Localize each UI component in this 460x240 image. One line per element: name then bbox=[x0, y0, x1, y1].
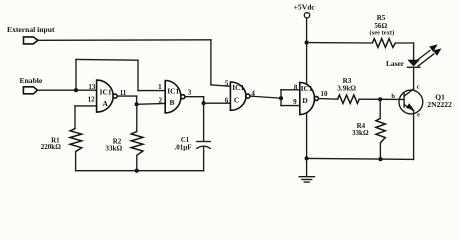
junction B-out/C-in6/C1 dot bbox=[202, 101, 206, 105]
nand gate IC1-B bbox=[165, 81, 185, 113]
svg-text:2N2222: 2N2222 bbox=[427, 100, 452, 109]
ground symbol bbox=[299, 158, 314, 182]
wire Enable branch vertical down to pin 1 bbox=[137, 60, 139, 90]
svg-text:1: 1 bbox=[158, 83, 162, 91]
svg-text:3.9kΩ: 3.9kΩ bbox=[337, 84, 356, 92]
wire +5V branch to R5 bbox=[307, 42, 373, 44]
svg-text:A: A bbox=[103, 99, 109, 108]
wire bottom right rail bbox=[307, 158, 414, 159]
svg-text:33kΩ: 33kΩ bbox=[105, 145, 122, 153]
power +5Vdc terminal circle bbox=[304, 13, 309, 18]
wire to pin 1 of IC1-B bbox=[138, 90, 165, 92]
wire node down to C1 bbox=[203, 103, 205, 141]
wire R3 to base node bbox=[359, 98, 404, 100]
junction base/R4 dot bbox=[378, 97, 382, 101]
laser emission arrow 1 shaft bbox=[414, 50, 430, 62]
capacitor C1 top plate bbox=[197, 141, 210, 143]
junction C-out node dot bbox=[279, 96, 283, 100]
svg-text:IC1: IC1 bbox=[167, 86, 179, 95]
svg-text:2: 2 bbox=[159, 97, 163, 105]
resistor R4 zigzag bbox=[376, 118, 385, 142]
wire D input tie vertical bbox=[280, 90, 282, 106]
nand gate IC1-C bbox=[230, 82, 250, 110]
wire R4 top stub bbox=[379, 99, 381, 118]
junction rail-R2 dot bbox=[135, 169, 139, 173]
svg-text:B: B bbox=[170, 98, 175, 107]
nand gate IC1-D bbox=[300, 82, 319, 114]
svg-text:.01µF: .01µF bbox=[174, 143, 191, 151]
junction R4/rail dot bbox=[378, 157, 382, 161]
svg-text:Laser: Laser bbox=[386, 59, 405, 68]
resistor R2 zigzag bbox=[131, 132, 143, 156]
svg-text:External input: External input bbox=[7, 25, 55, 34]
wire corner down to laser anode bbox=[413, 43, 415, 60]
resistor R1 zigzag bbox=[70, 128, 82, 151]
wire Enable to pin 13 of IC1-A bbox=[38, 89, 97, 91]
wire External input horizontal to gate C column bbox=[38, 39, 211, 42]
laser emission arrow 2 head bbox=[433, 48, 441, 56]
wire C1 bottom stub bbox=[203, 147, 205, 171]
wire +5V rail vertical bbox=[306, 18, 308, 158]
resistor R3 zigzag bbox=[338, 95, 360, 103]
laser emission arrow 1 head bbox=[429, 44, 437, 52]
wire to pin 9 of IC1-D bbox=[281, 105, 300, 107]
laser emission arrow 2 shaft bbox=[418, 54, 434, 66]
capacitor C1 curved plate bbox=[197, 146, 210, 148]
svg-text:D: D bbox=[302, 96, 307, 105]
wire R4 bottom stub bbox=[379, 143, 381, 160]
wire to pin 5 of IC1-C bbox=[211, 85, 231, 86]
wire pin 12 vertical down to R1 bbox=[74, 106, 76, 128]
svg-text:9: 9 bbox=[293, 98, 297, 106]
laser diode triangle bbox=[407, 60, 419, 67]
wire laser cathode to collector bbox=[413, 67, 415, 89]
wire Enable branch horizontal top bbox=[76, 58, 138, 61]
wire IC1-B output bbox=[185, 96, 204, 98]
wire IC1-C output to D inputs bbox=[250, 96, 281, 98]
wire R2 bottom stub bbox=[136, 155, 138, 170]
junction rail/ground dot bbox=[305, 156, 309, 160]
svg-text:3: 3 bbox=[188, 89, 192, 97]
svg-text:12: 12 bbox=[88, 96, 96, 104]
connector Enable tag bbox=[23, 87, 37, 94]
svg-text:10: 10 bbox=[321, 90, 329, 98]
svg-text:b: b bbox=[391, 93, 395, 100]
transistor Q1 circle bbox=[399, 90, 423, 114]
transistor Q1 emitter slant bbox=[404, 105, 414, 111]
svg-text:Enable: Enable bbox=[20, 76, 43, 85]
wire Enable branch vertical up bbox=[75, 59, 77, 90]
wire IC1-D output to R3 bbox=[318, 98, 337, 101]
wire output node vertical bbox=[136, 96, 138, 104]
svg-text:6: 6 bbox=[225, 96, 229, 104]
svg-text:33kΩ: 33kΩ bbox=[352, 129, 369, 137]
svg-text:8: 8 bbox=[294, 84, 298, 92]
wire to pin 6 of IC1-C bbox=[204, 102, 231, 104]
transistor Q1 emitter arrowhead bbox=[406, 103, 414, 110]
wire node down to R2 bbox=[136, 104, 138, 131]
wire pin 12 of IC1-A feedback horizontal bbox=[75, 105, 97, 107]
svg-text:e: e bbox=[417, 112, 420, 119]
wire IC1-A output to node bbox=[117, 95, 137, 97]
wire to pin 2 of IC1-B bbox=[137, 103, 166, 106]
laser diode cathode bar bbox=[407, 66, 419, 68]
resistor R5 zigzag bbox=[372, 39, 395, 48]
wire bottom left rail bbox=[76, 170, 204, 172]
svg-text:220kΩ: 220kΩ bbox=[41, 143, 61, 151]
svg-text:+5Vdc: +5Vdc bbox=[294, 3, 316, 12]
wire External input vertical down bbox=[210, 40, 212, 85]
svg-text:C: C bbox=[234, 95, 239, 104]
svg-text:5: 5 bbox=[225, 80, 229, 88]
junction Enable node dot bbox=[74, 88, 78, 92]
junction A-out/B-in2/R2 dot bbox=[135, 102, 139, 106]
svg-text:c: c bbox=[417, 84, 420, 91]
svg-text:IC1: IC1 bbox=[301, 84, 313, 93]
junction +5V/R5 dot bbox=[305, 41, 309, 45]
svg-text:IC1: IC1 bbox=[232, 83, 244, 92]
wire R1 bottom stub bbox=[75, 152, 77, 171]
wire emitter down to rail bbox=[413, 111, 415, 160]
svg-text:R5: R5 bbox=[377, 14, 386, 22]
transistor Q1 base bar bbox=[403, 93, 405, 107]
svg-text:13: 13 bbox=[88, 83, 96, 91]
wire to pin 8 of IC1-D bbox=[281, 89, 300, 91]
svg-text:IC1: IC1 bbox=[100, 87, 112, 96]
wire R5 to laser corner bbox=[395, 42, 413, 44]
transistor Q1 collector slant bbox=[404, 89, 414, 96]
nand gate IC1-A bbox=[97, 80, 118, 112]
wire B output down bbox=[203, 97, 205, 104]
connector External input tag bbox=[24, 37, 39, 44]
svg-text:(see text): (see text) bbox=[370, 29, 395, 36]
